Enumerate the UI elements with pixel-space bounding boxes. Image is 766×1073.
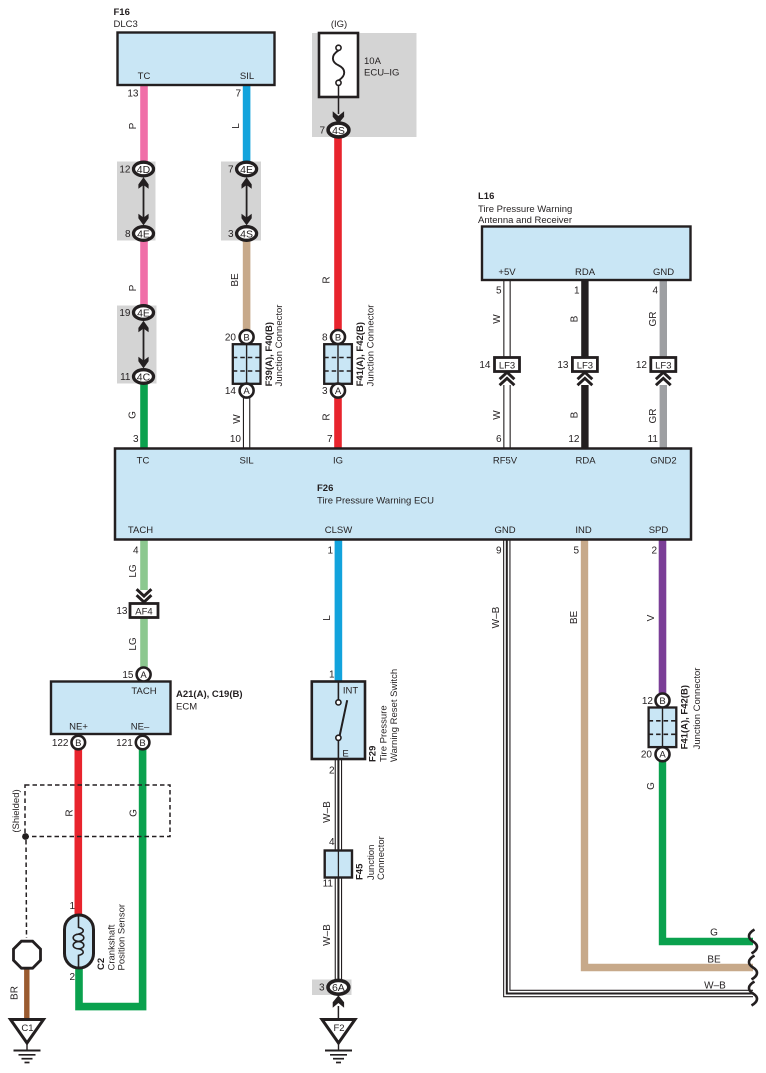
svg-text:7: 7 (235, 89, 241, 100)
svg-text:7: 7 (319, 126, 325, 137)
pin circle B 121 (116, 736, 149, 750)
svg-text:LF3: LF3 (577, 360, 593, 371)
connector highlight box 4D/4E (117, 162, 156, 241)
svg-text:2: 2 (329, 766, 335, 777)
fuse highlight box (312, 33, 417, 137)
svg-text:1: 1 (327, 546, 333, 557)
wire W (junction A to F26 SIL pin10) (230, 396, 247, 449)
connector F16 DLC3 (114, 7, 275, 85)
connector oval 4E pin19 (119, 306, 153, 320)
svg-text:1: 1 (69, 901, 75, 912)
svg-text:CLSW: CLSW (325, 525, 352, 536)
svg-text:GND: GND (494, 525, 515, 536)
connector highlight box 4E/4C (117, 306, 157, 384)
wire BE (4S to junction B) (230, 239, 247, 332)
svg-text:G: G (128, 411, 139, 419)
svg-text:Junction Connector: Junction Connector (274, 305, 285, 387)
svg-text:12: 12 (568, 434, 580, 445)
svg-text:F16: F16 (114, 7, 130, 18)
svg-text:DLC3: DLC3 (114, 19, 138, 30)
svg-text:F26: F26 (317, 483, 333, 494)
ECM A21(A) C19(B) (51, 682, 243, 735)
svg-text:4S: 4S (240, 228, 253, 240)
svg-text:NE–: NE– (131, 722, 150, 733)
svg-text:W–B: W–B (322, 924, 333, 946)
svg-text:Antenna and Receiver: Antenna and Receiver (478, 215, 572, 226)
wire W-B (F45 pin11 to 6A) (322, 878, 338, 982)
svg-text:TACH: TACH (131, 686, 156, 697)
svg-text:11: 11 (323, 879, 334, 890)
svg-text:ECU–IG: ECU–IG (364, 68, 399, 79)
svg-text:G: G (646, 782, 657, 790)
svg-text:B: B (335, 332, 341, 343)
svg-text:B: B (243, 332, 249, 343)
junction connector F41(A) F42(B) lower (641, 668, 703, 762)
svg-text:G: G (710, 928, 718, 939)
svg-text:C1: C1 (21, 1023, 33, 1034)
svg-text:20: 20 (225, 333, 237, 344)
wire W-B (F26 GND pin9 to right break) (491, 540, 753, 994)
svg-text:B: B (659, 696, 665, 707)
svg-text:INT: INT (343, 686, 359, 697)
svg-text:4E: 4E (240, 164, 253, 176)
shield chevron down (TACH) (137, 589, 152, 602)
svg-text:Connector: Connector (376, 836, 387, 880)
svg-text:A: A (243, 386, 250, 397)
svg-text:15: 15 (122, 670, 134, 681)
svg-text:LG: LG (128, 637, 139, 651)
svg-text:2: 2 (651, 546, 657, 557)
wire GR (LF3 to F26 GND2 pin11) (648, 385, 664, 449)
svg-text:F29: F29 (368, 746, 379, 762)
svg-text:(Shielded): (Shielded) (11, 789, 22, 832)
svg-text:11: 11 (120, 372, 131, 383)
svg-text:Junction Connector: Junction Connector (366, 305, 377, 387)
svg-text:G: G (129, 809, 140, 817)
svg-text:B: B (139, 738, 145, 749)
double arrow 4D-4E (138, 177, 148, 225)
svg-text:W: W (492, 410, 503, 420)
svg-text:6A: 6A (332, 982, 345, 994)
svg-text:IG: IG (333, 456, 343, 467)
svg-text:12: 12 (636, 360, 648, 371)
svg-text:Tire Pressure Warning ECU: Tire Pressure Warning ECU (317, 496, 434, 507)
wire G (junction A to right break) (646, 760, 753, 942)
svg-text:SPD: SPD (649, 525, 669, 536)
ground C1 (11, 1020, 44, 1063)
wire TC pink P (DLC3 pin13 to 4D) (127, 85, 144, 166)
svg-text:P: P (128, 122, 139, 129)
ECU F26 Tire Pressure Warning ECU (115, 449, 691, 540)
svg-text:GND2: GND2 (650, 456, 676, 467)
svg-text:V: V (646, 614, 657, 621)
svg-text:LG: LG (128, 564, 139, 578)
wire P (4E to 4E) (128, 239, 144, 308)
svg-text:A: A (659, 750, 666, 761)
svg-text:7: 7 (327, 434, 333, 445)
svg-text:3: 3 (228, 229, 234, 240)
antenna L16 Tire Pressure Warning Antenna and Receiver (478, 191, 691, 280)
svg-text:TC: TC (137, 456, 150, 467)
svg-text:10: 10 (230, 434, 242, 445)
svg-text:121: 121 (116, 738, 133, 749)
svg-text:GR: GR (648, 409, 659, 424)
svg-text:ECM: ECM (176, 702, 197, 713)
connector oval 4C pin11 (120, 370, 153, 384)
svg-text:NE+: NE+ (69, 722, 88, 733)
wire W (LF3 to F26 RF5V pin6) (492, 385, 507, 449)
pin circle B 122 (52, 736, 85, 750)
shield connector AF4 pin13 (116, 604, 158, 618)
junction connector F45 (325, 836, 388, 880)
svg-text:GR: GR (648, 312, 659, 327)
svg-text:8: 8 (322, 333, 328, 344)
svg-text:A21(A), C19(B): A21(A), C19(B) (176, 689, 243, 700)
svg-text:14: 14 (479, 360, 491, 371)
svg-text:L: L (322, 615, 333, 621)
svg-text:14: 14 (225, 386, 237, 397)
svg-text:R: R (322, 276, 333, 283)
svg-text:BR: BR (10, 986, 21, 1000)
svg-text:BE: BE (569, 611, 580, 625)
wire W (+5V to LF3) (492, 280, 507, 358)
svg-text:R: R (322, 413, 333, 420)
switch F29 tire pressure warning reset switch (312, 669, 400, 762)
wire G (4C to F26 TC pin3) (128, 381, 145, 449)
svg-text:4: 4 (329, 837, 335, 848)
svg-text:9: 9 (496, 546, 502, 557)
svg-text:RDA: RDA (575, 456, 596, 467)
sensor C2 crankshaft position sensor (65, 904, 128, 971)
wire R (junction A to F26 IG pin7) (322, 396, 339, 449)
wire break squiggle W-B (749, 982, 757, 1006)
wire break squiggle BE (749, 956, 757, 980)
svg-text:Tire Pressure: Tire Pressure (379, 705, 390, 762)
wire LG (F26 TACH pin4 to AF4) (128, 540, 144, 591)
svg-text:SIL: SIL (239, 456, 253, 467)
wire LG (AF4 to ECM pin15 A) (122, 618, 144, 682)
svg-text:W: W (232, 414, 243, 424)
connector oval 4S pin7 (fuse) (319, 123, 348, 137)
svg-text:B: B (75, 738, 81, 749)
wire B (RDA to LF3) (570, 280, 585, 358)
wire BR (octagon to C1 ground) (10, 966, 27, 1019)
svg-text:GND: GND (653, 267, 674, 278)
svg-text:13: 13 (116, 606, 128, 617)
svg-text:2: 2 (69, 972, 75, 983)
svg-text:A: A (335, 386, 342, 397)
svg-text:7: 7 (228, 165, 234, 176)
svg-text:6: 6 (496, 434, 502, 445)
wire V (F26 SPD pin2 to junction B) (646, 540, 663, 696)
shielded cable dashed box (11, 785, 170, 837)
svg-text:5: 5 (573, 546, 579, 557)
shield connector LF3 pin12 (636, 358, 676, 386)
svg-text:RDA: RDA (575, 267, 596, 278)
svg-text:B: B (570, 411, 581, 418)
double arrow 4E-4S (242, 177, 252, 225)
svg-text:F41(A), F42(B): F41(A), F42(B) (355, 322, 366, 386)
svg-text:122: 122 (52, 738, 69, 749)
svg-text:Junction Connector: Junction Connector (692, 668, 703, 750)
svg-text:W–B: W–B (704, 981, 726, 992)
connector oval 4E pin8 (125, 227, 154, 241)
svg-text:4: 4 (652, 286, 658, 297)
fuse 10A ECU-IG (319, 19, 399, 124)
svg-text:13: 13 (127, 89, 139, 100)
svg-text:BE: BE (230, 273, 241, 287)
wire GR (GND to LF3) (648, 280, 663, 358)
svg-text:LF3: LF3 (499, 360, 515, 371)
svg-text:F45: F45 (354, 863, 365, 880)
svg-text:E: E (342, 749, 348, 760)
wire G (ECM NE- 121 to C2 pin2) (69, 748, 142, 1007)
svg-text:4E: 4E (137, 307, 150, 319)
svg-text:A: A (140, 670, 147, 681)
svg-text:LF3: LF3 (655, 360, 671, 371)
svg-text:10A: 10A (364, 56, 382, 67)
svg-text:4C: 4C (137, 371, 151, 383)
svg-text:W–B: W–B (491, 606, 502, 628)
wire SIL blue L (DLC3 pin7 to 4E) (231, 85, 247, 166)
wire W-B (F29 E pin2 to F45 pin4) (322, 759, 338, 851)
wire B (LF3 to F26 RDA pin12) (568, 385, 585, 449)
svg-text:L16: L16 (478, 191, 494, 202)
svg-text:12: 12 (119, 165, 131, 176)
svg-text:4D: 4D (137, 164, 151, 176)
connector oval 4S pin3 (228, 227, 257, 241)
svg-text:L: L (231, 123, 242, 129)
svg-text:Tire Pressure Warning: Tire Pressure Warning (478, 204, 572, 215)
svg-text:1: 1 (329, 670, 335, 681)
svg-text:5: 5 (496, 286, 502, 297)
pin circle A 15 (ECM TACH) (137, 668, 151, 682)
svg-text:B: B (570, 315, 581, 322)
wire BE (F26 IND pin5 to right break) (569, 540, 753, 968)
connector oval 4D pin12 (119, 162, 153, 176)
svg-text:P: P (128, 284, 139, 291)
junction connector F39(A) F40(B) (225, 305, 285, 398)
connector highlight box 4E/4S (221, 162, 261, 241)
svg-text:W: W (492, 314, 503, 324)
svg-text:4: 4 (133, 546, 139, 557)
shield connector LF3 pin13 (557, 358, 597, 386)
svg-text:4E: 4E (137, 228, 150, 240)
svg-text:TC: TC (138, 71, 151, 82)
shield drain node dot (22, 833, 29, 938)
connector oval 6A pin3 (319, 980, 349, 994)
svg-text:8: 8 (125, 229, 131, 240)
double arrow 4E-4C (138, 321, 148, 369)
svg-text:19: 19 (119, 308, 131, 319)
svg-text:RF5V: RF5V (493, 456, 518, 467)
wire R (fuse 4S to junction B) (322, 136, 339, 332)
svg-text:W–B: W–B (322, 801, 333, 823)
svg-text:1: 1 (574, 286, 580, 297)
svg-text:TACH: TACH (128, 525, 153, 536)
svg-text:AF4: AF4 (135, 606, 152, 617)
svg-text:20: 20 (641, 750, 653, 761)
ground F2 (322, 1020, 355, 1063)
svg-text:Position Sensor: Position Sensor (117, 904, 128, 971)
svg-text:13: 13 (557, 360, 569, 371)
svg-text:3: 3 (319, 983, 325, 994)
svg-text:3: 3 (133, 434, 139, 445)
svg-text:12: 12 (642, 696, 654, 707)
svg-text:(IG): (IG) (331, 19, 347, 30)
junction connector F41(A) F42(B) upper (322, 305, 377, 398)
wire L (F26 CLSW pin1 to F29) (322, 540, 338, 682)
svg-text:11: 11 (648, 434, 659, 445)
svg-text:F2: F2 (333, 1023, 344, 1034)
svg-text:SIL: SIL (240, 71, 254, 82)
ground arrow to F2 (333, 995, 344, 1019)
svg-text:Warning Reset Switch: Warning Reset Switch (389, 669, 400, 762)
connector highlight 6A (312, 980, 352, 996)
connector oval 4E pin7 (228, 162, 257, 176)
svg-text:F41(A), F42(B): F41(A), F42(B) (680, 685, 691, 749)
wire break squiggle G (749, 930, 757, 954)
svg-text:4S: 4S (332, 125, 345, 137)
shield octagon connector (14, 941, 41, 968)
shield connector LF3 pin14 (479, 358, 519, 386)
wire R (ECM NE+ 122 to C2 pin1) (65, 748, 79, 917)
svg-text:R: R (65, 809, 76, 816)
svg-text:BE: BE (707, 955, 721, 966)
svg-text:+5V: +5V (498, 267, 516, 278)
svg-text:C2: C2 (96, 958, 107, 970)
svg-text:3: 3 (322, 386, 328, 397)
svg-text:IND: IND (575, 525, 592, 536)
